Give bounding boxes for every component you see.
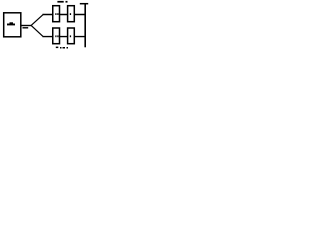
resistor R1 box <box>53 6 60 22</box>
label fragment: bottom dot 1 <box>60 47 62 49</box>
label fragment: bottom dash 2 <box>63 47 66 49</box>
label: minus sign at source terminal <box>23 27 29 28</box>
label fragment: bottom dot 2 <box>67 47 69 49</box>
node: T-bar terminal top right <box>80 3 88 5</box>
wire: bottom branch horizontal <box>43 36 86 38</box>
background <box>0 0 91 49</box>
resistor R2 box <box>68 6 75 22</box>
resistor R3 box <box>53 28 60 44</box>
battery B1 plate bump <box>10 22 14 23</box>
resistor R3 value text dots <box>55 35 56 37</box>
wire: lower fork diagonal <box>31 26 43 37</box>
battery B1 short thick plate <box>7 24 15 26</box>
resistor R4 box <box>68 28 75 44</box>
label fragment: bottom dash 1 <box>56 47 59 49</box>
wire: top branch horizontal <box>43 14 86 16</box>
wire: upper fork diagonal <box>31 15 43 26</box>
battery B1 outer box <box>4 13 21 37</box>
label fragment: top bar <box>57 1 63 3</box>
resistor R1 value text dots <box>55 13 56 15</box>
wire: source output to fork node <box>21 25 32 27</box>
wire: right vertical connector <box>84 4 86 48</box>
resistor R4 value text dot <box>70 35 71 37</box>
resistor R2 value text dot <box>70 13 71 15</box>
label fragment: top dot <box>66 1 68 3</box>
